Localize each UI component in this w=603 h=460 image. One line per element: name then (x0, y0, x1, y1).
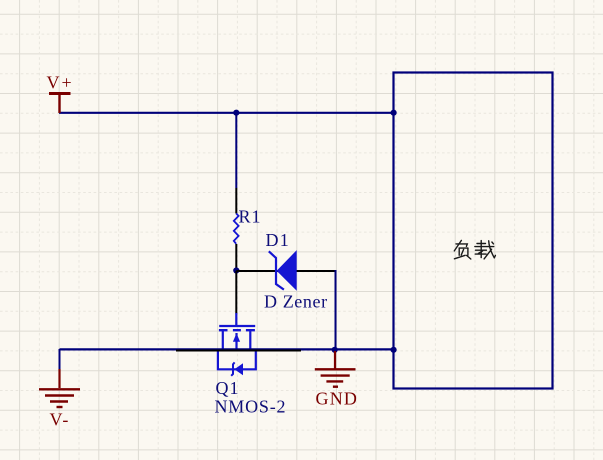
transistor Q1 channel segment mid (233, 329, 241, 331)
power symbol V+ bar (49, 94, 71, 114)
svg-text:Q1: Q1 (216, 378, 240, 398)
svg-text:D1: D1 (266, 230, 290, 250)
transistor Q1 channel segment left (219, 329, 228, 331)
transistor Q1 source lead (222, 330, 224, 350)
label load glyph ZAI (Chinese) (475, 241, 496, 259)
wire junction to zener (black) (236, 270, 336, 272)
node junction top-left (R1 tap) (233, 110, 239, 116)
svg-text:R1: R1 (239, 207, 262, 227)
transistor Q1 body diode cathode bar (231, 362, 234, 375)
wire top rail V+ (59, 112, 394, 114)
wire vertical from top rail to R1 (navy part) (235, 113, 237, 188)
diode D1 zener triangle (277, 251, 296, 289)
wire vertical to R1 (black part) (235, 188, 237, 214)
svg-text:V+: V+ (47, 73, 74, 93)
node junction top-right (load) (391, 110, 397, 116)
transistor Q1 drain lead (249, 330, 251, 350)
node junction load bottom (391, 347, 397, 353)
wire bottom rail (navy) (60, 348, 394, 350)
power symbol V- ground (39, 369, 80, 407)
transistor Q1 bulk lead with arrow (235, 333, 237, 350)
svg-text:NMOS-2: NMOS-2 (215, 397, 287, 417)
wire V- drop (59, 349, 61, 370)
wire R1 to gate junction (black) (235, 244, 237, 271)
power symbol GND (315, 351, 356, 387)
node junction GND (332, 347, 338, 353)
wire zener down to gnd rail (navy) (335, 270, 337, 350)
node junction gate/zener (233, 267, 239, 273)
transistor Q1 body diode loop (218, 350, 256, 370)
transistor Q1 NMOS gate lead (235, 313, 237, 326)
label load glyph FU (Chinese) (454, 240, 471, 259)
diode D1 zener cathode bar (269, 251, 284, 289)
svg-text:GND: GND (316, 389, 359, 409)
resistor R1 (234, 214, 239, 244)
svg-text:V-: V- (50, 410, 70, 430)
svg-text:D Zener: D Zener (264, 292, 328, 312)
transistor Q1 gate bar (219, 325, 255, 327)
transistor Q1 body diode triangle (234, 363, 243, 375)
load box (394, 73, 553, 389)
transistor Q1 channel segment right (246, 329, 255, 331)
wire gate drop (black) (235, 271, 237, 314)
wire bottom rail black overlay segment (176, 350, 301, 352)
